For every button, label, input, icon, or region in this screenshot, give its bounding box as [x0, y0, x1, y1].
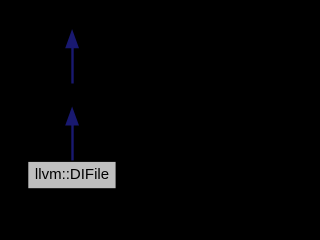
svg-text:llvm::DIFile: llvm::DIFile	[35, 166, 109, 183]
